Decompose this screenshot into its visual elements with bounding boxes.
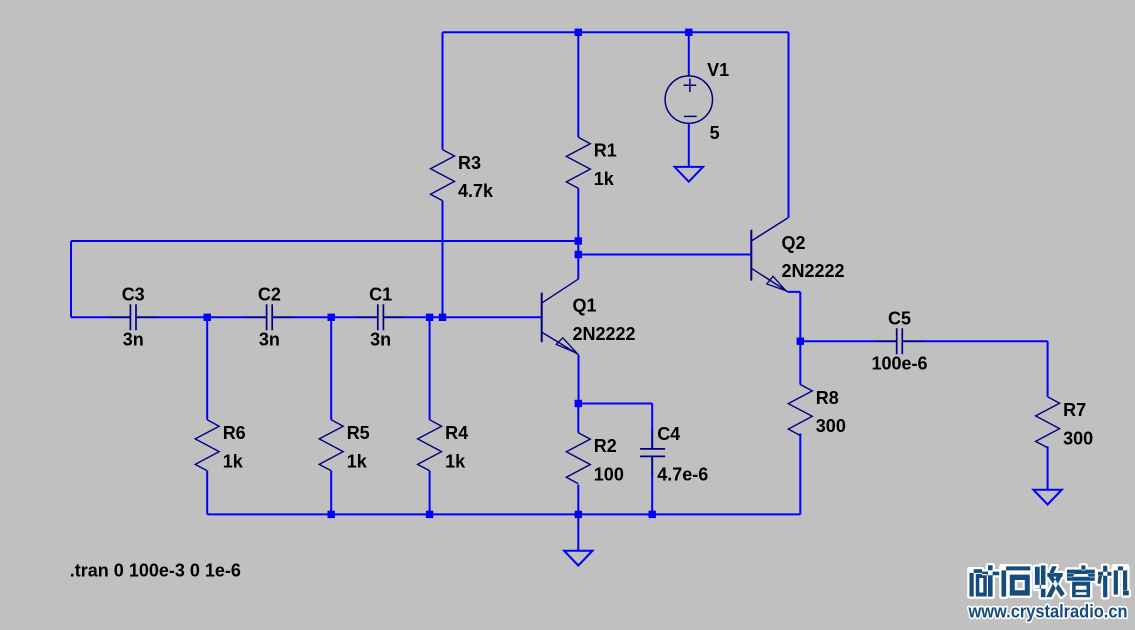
wire R5 top lead: [330, 317, 332, 420]
wire R8 top lead: [799, 341, 801, 384]
node feedback tap: [575, 237, 582, 244]
wire chain segment C: [272, 316, 378, 318]
wire V1 top lead: [688, 32, 690, 76]
capacitor C3 3n: [109, 316, 157, 318]
wire R7 bottom lead: [1047, 446, 1049, 489]
wire emitter node to C4: [578, 404, 652, 449]
svg-text:1k: 1k: [223, 451, 244, 471]
svg-text:C2: C2: [258, 285, 281, 305]
svg-text:1k: 1k: [594, 169, 615, 189]
resistor R5 1k: [319, 420, 343, 471]
ground under V1: [675, 167, 703, 182]
capacitor C5 100e-6: [876, 340, 924, 342]
node rail-R5: [328, 511, 335, 518]
wire feedback left drop: [70, 241, 72, 317]
wire R4 bottom lead: [429, 471, 431, 515]
node Q2 emitter / R8 / C5: [797, 338, 804, 345]
svg-text:R3: R3: [458, 153, 481, 173]
node Q1 emitter: [575, 400, 582, 407]
svg-text:C3: C3: [122, 285, 145, 305]
svg-text:R2: R2: [594, 436, 617, 456]
transistor Q1 2N2222: [542, 279, 579, 355]
wire chain segment B: [136, 316, 267, 318]
svg-text:C5: C5: [888, 308, 911, 328]
logo glyph shou: [1035, 566, 1065, 598]
wire Q2 collector riser: [788, 32, 790, 218]
wire R1 top lead: [577, 32, 579, 137]
node rail-C4: [649, 511, 656, 518]
svg-text:C1: C1: [369, 285, 392, 305]
svg-text:5: 5: [710, 123, 720, 143]
svg-text:Q1: Q1: [573, 296, 597, 316]
wire output run to C5: [800, 340, 896, 342]
resistor R2 100: [566, 433, 590, 484]
svg-text:www.crystalradio.cn: www.crystalradio.cn: [968, 601, 1128, 621]
resistor R1 1k: [566, 137, 590, 188]
node rail-R4: [426, 511, 433, 518]
svg-text:4.7e-6: 4.7e-6: [657, 465, 708, 485]
wire R8 bottom lead: [799, 434, 801, 515]
svg-text:300: 300: [1063, 428, 1093, 448]
voltage source V1 5V: [665, 76, 712, 123]
resistor R6 1k: [195, 420, 219, 471]
wire R2 top lead: [577, 404, 579, 433]
svg-text:2N2222: 2N2222: [573, 324, 636, 344]
node rail-R1: [575, 29, 582, 36]
svg-text:V1: V1: [707, 60, 729, 80]
svg-text:1k: 1k: [347, 451, 368, 471]
node C3-R6: [204, 314, 211, 321]
wire V1 bottom lead: [688, 123, 690, 167]
svg-text:R7: R7: [1063, 400, 1086, 420]
wire R2 bottom lead: [577, 485, 579, 515]
node C1-R4: [426, 314, 433, 321]
svg-text:R1: R1: [594, 141, 617, 161]
node R3 bottom: [439, 314, 446, 321]
svg-text:R5: R5: [347, 423, 370, 443]
wire bottom rail: [207, 513, 800, 515]
svg-text:100e-6: 100e-6: [871, 354, 927, 374]
capacitor C1 3n: [357, 316, 405, 318]
svg-text:3n: 3n: [370, 330, 391, 350]
wire C5 to R7: [902, 341, 1047, 397]
wire C4 bottom lead: [651, 456, 653, 514]
logo glyph ji: [1097, 566, 1128, 598]
wire top supply rail: [443, 31, 789, 33]
ground at bottom center: [564, 551, 592, 566]
wire R6 bottom lead: [206, 471, 208, 515]
capacitor C2 3n: [245, 316, 293, 318]
ground under R7: [1033, 490, 1061, 505]
resistor R4 1k: [418, 420, 442, 471]
svg-text:300: 300: [816, 416, 846, 436]
logo glyph yin: [1067, 565, 1095, 597]
resistor R7 300: [1036, 397, 1060, 448]
svg-text:R8: R8: [816, 388, 839, 408]
resistor R3 4.7k: [431, 150, 455, 201]
wire chain segment A: [71, 316, 130, 318]
transistor Q2 2N2222: [751, 218, 788, 292]
wire R6 top lead: [206, 317, 208, 420]
svg-text:.tran 0 100e-3 0 1e-6: .tran 0 100e-3 0 1e-6: [70, 561, 241, 581]
wire R3 bottom lead: [442, 201, 444, 318]
logo glyph kuang: [970, 565, 1000, 596]
svg-text:3n: 3n: [259, 330, 280, 350]
node Q1 collector / Q2 base: [575, 251, 582, 258]
logo glyph shi: [1002, 566, 1031, 596]
node rail-V1: [685, 29, 692, 36]
wire Q1 collector node to Q2 base: [578, 254, 751, 256]
svg-text:Q2: Q2: [782, 233, 806, 253]
svg-text:2N2222: 2N2222: [782, 261, 845, 281]
wire Q2 emitter corner: [788, 292, 800, 341]
svg-text:3n: 3n: [123, 330, 144, 350]
svg-text:100: 100: [594, 464, 624, 484]
svg-text:R6: R6: [223, 423, 246, 443]
svg-text:1k: 1k: [445, 451, 466, 471]
svg-text:4.7k: 4.7k: [458, 181, 494, 201]
wire ground stem center: [577, 514, 579, 550]
node rail-ground: [575, 511, 582, 518]
wire R4 top lead: [429, 317, 431, 420]
wire Q1 emitter drop: [578, 355, 580, 404]
wire R1 bottom to Q1 collector: [577, 188, 579, 279]
resistor R8 300: [788, 385, 812, 436]
svg-text:R4: R4: [445, 423, 468, 443]
node C2-R5: [328, 314, 335, 321]
wire R3 top lead: [442, 32, 444, 149]
wire feedback top run: [71, 240, 578, 242]
wire chain segment D to Q1 base: [383, 316, 541, 318]
wire R5 bottom lead: [330, 471, 332, 515]
capacitor C4 4.7e-6: [651, 430, 653, 476]
svg-text:C4: C4: [657, 424, 680, 444]
